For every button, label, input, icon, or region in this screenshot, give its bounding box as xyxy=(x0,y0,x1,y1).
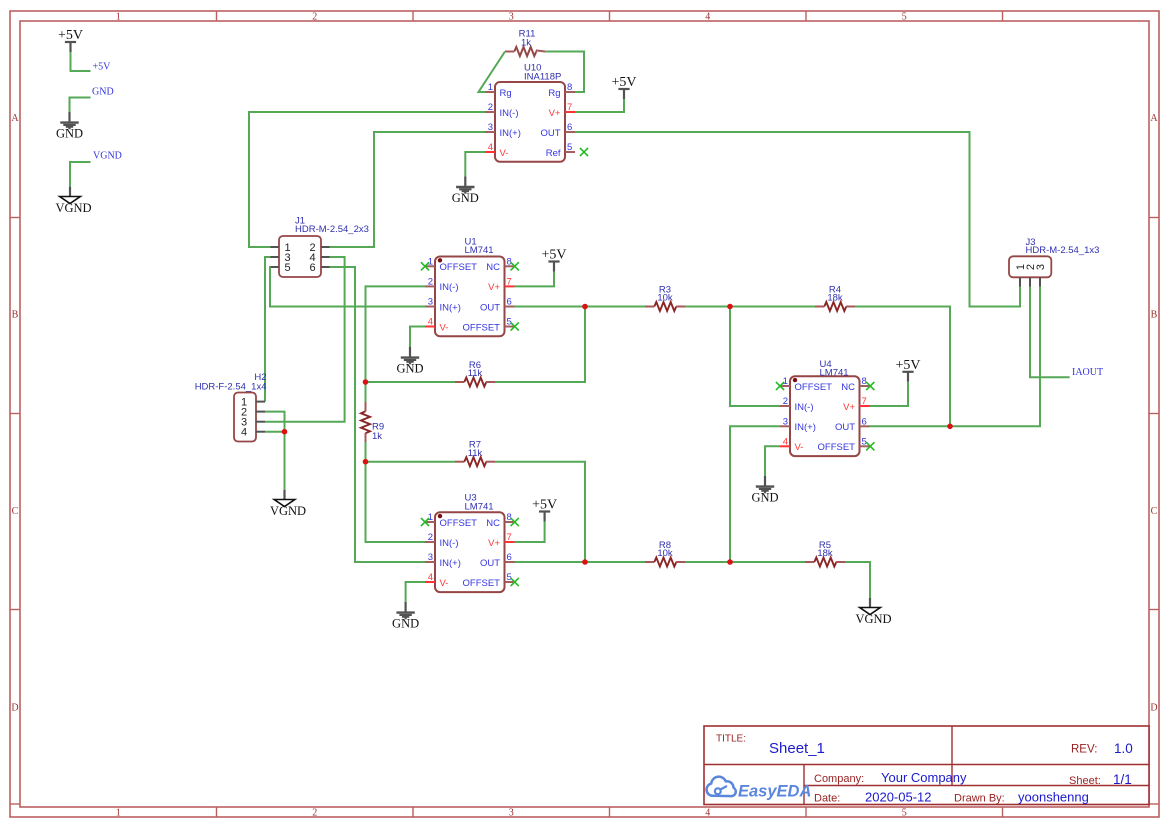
svg-text:GND: GND xyxy=(392,617,419,631)
wire GND net label to ground xyxy=(70,98,91,113)
svg-text:3: 3 xyxy=(509,12,514,23)
svg-text:10k: 10k xyxy=(657,293,673,304)
ground VGND at H2 xyxy=(270,490,306,518)
wire H2 pin2 to VGND net xyxy=(265,412,285,432)
junction U3 OUT / R7 xyxy=(582,559,588,565)
svg-text:IN(+): IN(+) xyxy=(795,422,816,433)
resistor R4 18k xyxy=(815,284,855,311)
svg-text:LM741: LM741 xyxy=(820,368,849,379)
wire +5V to U4 pin7 V+ xyxy=(870,382,909,406)
wire J1 pin4 to H2 pin3 xyxy=(265,257,345,422)
svg-text:OUT: OUT xyxy=(480,558,500,569)
svg-text:3: 3 xyxy=(428,552,433,563)
svg-text:HDR-M-2.54_2x3: HDR-M-2.54_2x3 xyxy=(295,224,369,235)
wire J1 pin6 to U3 pin3 IN(+) xyxy=(330,267,426,562)
junction U4 OUT / R4 / J3 pin3 xyxy=(947,424,953,430)
svg-text:2020-05-12: 2020-05-12 xyxy=(865,790,932,805)
wire +5V flag to net label xyxy=(71,52,91,71)
svg-text:INA118P: INA118P xyxy=(524,71,561,82)
svg-text:2: 2 xyxy=(312,12,317,23)
EasyEDA logo xyxy=(707,777,812,801)
wire node to R7 left xyxy=(366,461,456,463)
svg-text:3: 3 xyxy=(509,808,514,819)
svg-text:V+: V+ xyxy=(488,282,500,293)
no-connect X U4 pin5 xyxy=(866,442,874,450)
svg-text:V+: V+ xyxy=(488,538,500,549)
svg-text:18k: 18k xyxy=(817,548,833,559)
wire node to R6 left xyxy=(366,381,456,383)
svg-text:7: 7 xyxy=(507,532,512,543)
ground GND at U10 xyxy=(452,176,479,205)
wire J1 pin2 to U10 pin3 IN(+) xyxy=(330,132,486,247)
svg-text:4: 4 xyxy=(705,808,710,819)
no-connect X U3 pin5 xyxy=(511,578,519,586)
svg-text:IN(+): IN(+) xyxy=(500,128,521,139)
svg-text:1.0: 1.0 xyxy=(1114,741,1133,756)
svg-text:8: 8 xyxy=(862,376,867,387)
connector J3 HDR-M-2.54_1x3 xyxy=(1009,237,1099,287)
svg-text:IAOUT: IAOUT xyxy=(1072,367,1103,378)
svg-text:6: 6 xyxy=(507,297,512,308)
wire U4 pin6 OUT to J3 pin3 xyxy=(870,287,1041,427)
wire R11 left to U10 pin1 Rg xyxy=(479,52,506,93)
svg-text:11k: 11k xyxy=(468,368,483,379)
connector H2 HDR-F-2.54_1x4 xyxy=(195,372,267,442)
svg-text:IN(-): IN(-) xyxy=(795,402,814,413)
op-amp U1 LM741 xyxy=(425,237,515,337)
wire +5V to U10 pin7 V+ xyxy=(575,99,624,112)
svg-text:B: B xyxy=(12,309,19,320)
resistor R7 11k xyxy=(455,440,495,467)
svg-text:5: 5 xyxy=(567,142,572,153)
svg-text:D: D xyxy=(11,702,18,713)
svg-text:1: 1 xyxy=(116,12,121,23)
wire VGND net label to ground xyxy=(70,162,91,187)
connector J1 HDR-M-2.54_2x3 xyxy=(271,216,369,278)
svg-text:IN(-): IN(-) xyxy=(440,282,459,293)
svg-text:VGND: VGND xyxy=(93,151,122,162)
svg-text:LM741: LM741 xyxy=(465,245,494,256)
wire R8 right to node xyxy=(685,561,730,563)
wire node to R5 left xyxy=(730,561,805,563)
svg-text:5: 5 xyxy=(902,12,907,23)
op-amp U10 INA118P xyxy=(485,63,575,162)
svg-text:5: 5 xyxy=(902,808,907,819)
wire +5V to U3 pin7 V+ xyxy=(515,522,545,543)
svg-text:IN(+): IN(+) xyxy=(440,558,461,569)
svg-text:7: 7 xyxy=(507,276,512,287)
svg-text:1k: 1k xyxy=(521,37,531,48)
svg-text:Drawn By:: Drawn By: xyxy=(954,793,1005,805)
svg-text:7: 7 xyxy=(567,102,572,113)
svg-text:1: 1 xyxy=(116,808,121,819)
svg-text:11k: 11k xyxy=(468,448,483,459)
svg-text:5: 5 xyxy=(284,262,290,274)
no-connect X U1 pin1 xyxy=(421,262,429,270)
svg-text:HDR-F-2.54_1x4: HDR-F-2.54_1x4 xyxy=(195,381,267,392)
wire U3 pin4 V- to ground xyxy=(406,582,425,602)
wire J1 pin5 to U1 pin3 IN(+) xyxy=(270,267,425,307)
svg-text:Sheet:: Sheet: xyxy=(1069,775,1101,787)
junction R3/R4/U4-IN- xyxy=(727,304,733,310)
svg-text:OUT: OUT xyxy=(480,302,500,313)
svg-text:VGND: VGND xyxy=(270,504,306,518)
wire U4 pin4 V- to ground xyxy=(765,446,780,476)
svg-text:4: 4 xyxy=(428,572,433,583)
svg-text:2: 2 xyxy=(312,808,317,819)
svg-text:A: A xyxy=(11,113,19,124)
op-amp U4 LM741 xyxy=(780,359,870,456)
no-connect X U4 pin8 xyxy=(866,382,874,390)
wire U1 pin2 IN(-) down to R6/R9 node xyxy=(366,286,426,382)
svg-text:Rg: Rg xyxy=(548,88,560,99)
power flag +5V at U4 xyxy=(895,358,920,382)
svg-text:10k: 10k xyxy=(657,548,673,559)
svg-text:V-: V- xyxy=(795,442,804,453)
ground VGND at R5 xyxy=(855,598,891,626)
svg-text:TITLE:: TITLE: xyxy=(716,734,746,745)
svg-text:V+: V+ xyxy=(549,108,561,119)
wire R4 right down to U4 OUT xyxy=(855,307,950,427)
wire node down to U3 pin2 IN(-) xyxy=(366,462,426,542)
wire U3 pin6 OUT to R8 xyxy=(515,561,646,563)
svg-text:GND: GND xyxy=(751,491,778,505)
power flag +5V at U10 xyxy=(611,75,636,99)
svg-text:V+: V+ xyxy=(843,402,855,413)
wire R6 right up to U1 OUT xyxy=(495,307,585,383)
power flag +5V at U1 xyxy=(541,248,566,272)
wire J1 pin1 to U10 pin2 IN(-) xyxy=(249,112,485,247)
svg-text:OFFSET: OFFSET xyxy=(463,578,501,589)
svg-text:HDR-M-2.54_1x3: HDR-M-2.54_1x3 xyxy=(1026,245,1100,256)
svg-text:IN(+): IN(+) xyxy=(440,302,461,313)
no-connect X U4 pin1 xyxy=(776,382,784,390)
svg-text:C: C xyxy=(12,506,19,517)
svg-text:6: 6 xyxy=(309,262,315,274)
svg-text:Sheet_1: Sheet_1 xyxy=(769,740,825,757)
no-connect X U3 pin8 xyxy=(511,518,519,526)
power flag +5V at U3 xyxy=(532,498,557,522)
ground GND at U1 xyxy=(396,347,423,376)
resistor R6 11k xyxy=(455,360,495,387)
svg-text:Your Company: Your Company xyxy=(881,770,967,785)
wire node down to U4 pin2 IN(-) xyxy=(730,307,780,407)
ground GND top-left xyxy=(56,112,83,141)
svg-text:2: 2 xyxy=(428,532,433,543)
svg-text:V-: V- xyxy=(440,578,449,589)
wire R7 right down to U3 OUT xyxy=(495,462,585,562)
svg-text:V-: V- xyxy=(440,322,449,333)
svg-text:1/1: 1/1 xyxy=(1113,772,1132,787)
svg-text:18k: 18k xyxy=(827,293,843,304)
svg-text:2: 2 xyxy=(488,102,493,113)
ground VGND top-left xyxy=(55,187,91,215)
wire node up to U4 pin3 IN(+) xyxy=(730,426,780,562)
junction R7/R9/U3-IN- node xyxy=(363,459,369,465)
op-amp U3 LM741 xyxy=(425,493,515,593)
resistor R5 18k xyxy=(805,540,845,567)
svg-text:4: 4 xyxy=(783,436,788,447)
svg-text:VGND: VGND xyxy=(855,612,891,626)
svg-text:4: 4 xyxy=(428,317,433,328)
resistor R8 10k xyxy=(645,540,685,567)
wire H2 pin4 to VGND xyxy=(265,432,285,490)
junction R6/R9/U1-IN- node xyxy=(363,379,369,385)
svg-text:EasyEDA: EasyEDA xyxy=(738,783,811,801)
ground GND at U4 xyxy=(751,476,778,505)
svg-text:6: 6 xyxy=(567,122,572,133)
svg-text:OFFSET: OFFSET xyxy=(795,382,833,393)
wire U10 pin6 OUT to J3 pin1 xyxy=(575,132,1020,307)
svg-text:7: 7 xyxy=(862,396,867,407)
svg-text:6: 6 xyxy=(507,552,512,563)
junction U1 OUT / R6 xyxy=(582,304,588,310)
svg-text:OFFSET: OFFSET xyxy=(440,262,478,273)
resistor R3 10k xyxy=(645,284,685,311)
svg-text:OFFSET: OFFSET xyxy=(440,518,478,529)
wire J3 pin2 to IAOUT label xyxy=(1030,287,1070,378)
svg-text:LM741: LM741 xyxy=(465,501,494,512)
wire U1 pin6 OUT to R3 xyxy=(515,306,646,308)
svg-text:yoonshenng: yoonshenng xyxy=(1018,790,1089,805)
wire R3 right to node xyxy=(685,306,730,308)
svg-text:Company:: Company: xyxy=(814,773,864,785)
svg-text:GND: GND xyxy=(452,191,479,205)
title block xyxy=(704,726,1149,805)
svg-text:3: 3 xyxy=(488,122,493,133)
wire R11 right to U10 pin8 Rg xyxy=(545,52,584,93)
svg-text:IN(-): IN(-) xyxy=(440,538,459,549)
no-connect X U1 pin8 xyxy=(511,262,519,270)
svg-text:IN(-): IN(-) xyxy=(500,108,519,119)
svg-text:NC: NC xyxy=(841,382,855,393)
wire R5 right to VGND xyxy=(845,562,870,598)
wire +5V to U1 pin7 V+ xyxy=(515,272,555,287)
svg-text:8: 8 xyxy=(567,82,572,93)
junction R8/R5/U4-IN+ xyxy=(727,559,733,565)
svg-text:NC: NC xyxy=(486,262,500,273)
svg-text:OUT: OUT xyxy=(540,128,560,139)
svg-text:B: B xyxy=(1151,309,1158,320)
svg-text:4: 4 xyxy=(488,142,493,153)
svg-text:3: 3 xyxy=(783,416,788,427)
svg-text:1: 1 xyxy=(488,82,493,93)
svg-text:Rg: Rg xyxy=(500,88,512,99)
wire node to R4 left xyxy=(730,306,815,308)
power flag +5V top-left xyxy=(58,28,83,52)
svg-text:+5V: +5V xyxy=(93,62,112,73)
svg-text:NC: NC xyxy=(486,518,500,529)
no-connect X U10 pin5 Ref xyxy=(580,148,588,156)
svg-text:5: 5 xyxy=(862,436,867,447)
svg-text:3: 3 xyxy=(1035,264,1047,270)
svg-text:1k: 1k xyxy=(372,431,382,442)
svg-text:OUT: OUT xyxy=(835,422,855,433)
svg-text:D: D xyxy=(1150,702,1157,713)
wire U10 pin4 V- to ground xyxy=(465,152,485,176)
wire U1 pin4 V- to ground xyxy=(410,327,425,348)
wire J1 pin3 to H2 pin1 xyxy=(265,257,271,402)
svg-text:OFFSET: OFFSET xyxy=(463,322,501,333)
junction H2 pin4 / VGND xyxy=(282,429,288,435)
svg-text:2: 2 xyxy=(428,276,433,287)
wire R9 bottom to R7 node xyxy=(365,442,367,462)
svg-text:GND: GND xyxy=(92,87,114,98)
svg-text:OFFSET: OFFSET xyxy=(818,442,856,453)
svg-text:GND: GND xyxy=(56,127,83,141)
svg-text:C: C xyxy=(1151,506,1158,517)
wire node to R9 top xyxy=(365,382,367,402)
resistor R11 1k xyxy=(505,29,545,57)
no-connect X U3 pin1 xyxy=(421,518,429,526)
svg-text:2: 2 xyxy=(783,396,788,407)
no-connect X U1 pin5 xyxy=(511,322,519,330)
ground GND at U3 xyxy=(392,602,419,631)
svg-text:REV:: REV: xyxy=(1071,744,1097,756)
svg-text:Ref: Ref xyxy=(546,148,561,159)
svg-text:6: 6 xyxy=(862,416,867,427)
resistor R9 1k xyxy=(361,402,384,442)
svg-text:4: 4 xyxy=(241,427,247,439)
svg-text:VGND: VGND xyxy=(55,201,91,215)
svg-text:Date:: Date: xyxy=(814,793,840,805)
svg-text:V-: V- xyxy=(500,148,509,159)
svg-text:4: 4 xyxy=(705,12,710,23)
svg-text:3: 3 xyxy=(428,297,433,308)
svg-text:GND: GND xyxy=(396,362,423,376)
svg-text:A: A xyxy=(1150,113,1158,124)
